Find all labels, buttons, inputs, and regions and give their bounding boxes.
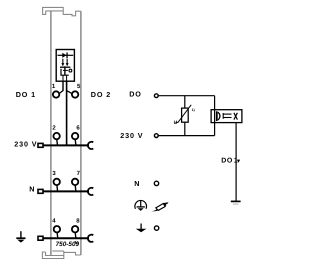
svg-text:N: N bbox=[29, 185, 35, 194]
svg-text:DO 2: DO 2 bbox=[91, 90, 111, 99]
svg-text:N: N bbox=[134, 179, 140, 188]
svg-text:U: U bbox=[174, 120, 178, 126]
svg-text:230 V: 230 V bbox=[120, 131, 143, 140]
svg-text:DO 1: DO 1 bbox=[16, 90, 36, 99]
svg-text:1): 1) bbox=[192, 108, 195, 112]
svg-text:DO: DO bbox=[221, 158, 233, 165]
svg-text:DO: DO bbox=[129, 90, 142, 99]
svg-text:230 V: 230 V bbox=[14, 140, 37, 149]
